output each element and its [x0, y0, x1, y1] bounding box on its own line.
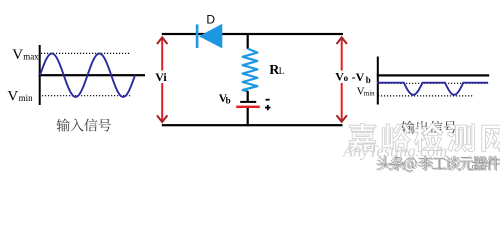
wire: battery to bottom rail: [247, 108, 249, 125]
svg-text:V: V: [12, 47, 23, 63]
resistor RL (blue coil): [243, 49, 258, 92]
svg-text:V: V: [7, 89, 18, 105]
output clipped waveform (blue): [377, 83, 488, 95]
input graph Vmax dotted level line: [41, 52, 131, 54]
junction node: top rail / RL branch: [247, 33, 249, 35]
wire: resistor to battery: [247, 91, 249, 101]
svg-text:L: L: [279, 66, 285, 76]
input graph horizontal axis: [39, 74, 145, 76]
input sine wave: [40, 54, 135, 97]
diode D (triangle): [199, 24, 223, 49]
output graph Vmin dotted level line: [378, 95, 474, 97]
svg-text:min: min: [364, 90, 375, 98]
battery plus sign: [265, 105, 270, 110]
watermark 嘉峪检测网 (outlined gray): [348, 123, 500, 152]
svg-text:min: min: [19, 93, 34, 103]
diode D (cathode bar): [196, 24, 199, 48]
output graph vertical axis: [377, 57, 379, 105]
svg-text:b: b: [366, 75, 371, 85]
input graph vertical axis: [39, 45, 41, 105]
output graph -Vb dotted level line: [379, 82, 489, 84]
svg-text:Vi: Vi: [155, 70, 167, 84]
junction node: bottom rail / battery branch: [247, 124, 249, 126]
wire: top rail to resistor: [247, 35, 249, 49]
battery minus sign: [266, 99, 270, 101]
battery Vb bottom plate (positive, red): [236, 106, 260, 108]
Vo measurement arrow (red, double-headed): [337, 37, 346, 121]
Vi measurement arrow (red, double-headed): [158, 37, 167, 122]
input graph Vmin dotted level line: [42, 95, 131, 97]
caption 输入信号 (input signal): [57, 119, 112, 132]
svg-text:o: o: [344, 73, 349, 83]
svg-text:-V: -V: [352, 70, 365, 84]
output graph horizontal axis (thick zero line): [377, 74, 489, 76]
svg-text:D: D: [206, 13, 215, 27]
wire: top rail: [162, 33, 343, 35]
watermark 头条@李工谈元器件 (embossed): [378, 157, 500, 172]
svg-text:max: max: [23, 52, 39, 62]
caption 输出信号 (output signal): [401, 121, 456, 134]
wire: bottom rail: [162, 124, 343, 126]
svg-text:b: b: [226, 96, 231, 106]
battery Vb top plate (negative, black): [240, 101, 256, 103]
